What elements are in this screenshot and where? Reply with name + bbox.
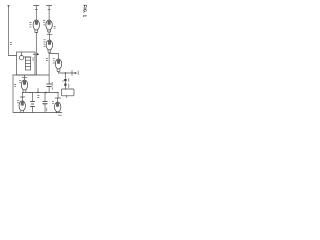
capacitor C1 lower lead (48, 86, 50, 92)
wire V6 grid lead (57, 98, 59, 102)
bus lower horizontal (22, 92, 58, 94)
tube V4 envelope (55, 59, 61, 69)
label 18 under V6 (59, 114, 62, 116)
tube V6 legs (56, 112, 59, 113)
wire V1 grid lead (35, 6, 37, 21)
wire arrow out of box top right (33, 53, 38, 55)
label 44 ticks left of V4 (53, 59, 55, 63)
bus mid horizontal (13, 74, 49, 76)
antenna terminal (7, 5, 9, 7)
label 28 beside R1 (68, 79, 70, 88)
tube V1 inner electrode (35, 21, 37, 25)
wire V4 output line right (59, 71, 76, 73)
label 52 (77, 71, 79, 75)
label 42 ticks left of V2 (43, 21, 45, 25)
label 50 ticks (14, 85, 15, 87)
wire left drop from bus (13, 75, 16, 113)
label 32 ticks left of V6 (52, 101, 54, 103)
label 43 tick right of V2 (54, 26, 55, 28)
label 22 ticks left of V5 (19, 81, 21, 83)
label tick left of R1 (62, 80, 63, 82)
wire V1 cathode long drop (35, 33, 37, 76)
label 41 ticks left of V1 (30, 23, 32, 27)
capacitor C1 plates (47, 84, 52, 86)
bus bottom horizontal (16, 112, 62, 114)
label 51 above bus (38, 96, 39, 98)
label 49 ticks in box (33, 58, 34, 60)
node junction dot (29, 92, 30, 93)
label 24 beside C2 (46, 108, 48, 111)
wire bus corner to V6 (57, 93, 59, 99)
label 26 beside C1 (51, 83, 53, 90)
tube V3 top cap bar (47, 33, 52, 35)
meter circle inside box (19, 56, 23, 60)
node stub with dot (37, 89, 39, 93)
capacitor C2 upper lead (44, 93, 46, 101)
label 47 tick (46, 59, 47, 61)
wire V2 grid lead (48, 6, 50, 21)
tube V6 inner electrode (57, 103, 59, 107)
tube V7 envelope (19, 101, 25, 111)
tube V2 legs (48, 30, 51, 32)
tube V5 inner electrode (24, 81, 26, 85)
svg-text:FIG. 1: FIG. 1 (82, 5, 87, 18)
label 43 ticks left of V3 (44, 40, 46, 47)
wire V3 cathode drop to bus (48, 52, 50, 75)
node inner junction (24, 56, 31, 58)
tube V4 legs (57, 69, 60, 72)
wire corner into box (9, 55, 17, 57)
wire antenna lead down left side (8, 7, 10, 56)
wire V7 grid lead from bus (22, 93, 24, 98)
capacitor C2 lower lead (44, 104, 46, 113)
tuner box outline (17, 52, 36, 75)
tube V2 envelope (46, 20, 52, 30)
wire circle top lead (21, 52, 23, 56)
tube V1 envelope (33, 20, 39, 30)
tube V1 legs (35, 30, 38, 33)
ground tick under box (66, 96, 68, 98)
capacitor C2 plates (43, 102, 47, 104)
label 46 beside antenna lead (10, 43, 11, 45)
battery B1 lower lead (32, 107, 34, 113)
capacitor C1 drop (48, 75, 50, 83)
tube V3 envelope (46, 40, 52, 50)
battery B1 plates (31, 102, 35, 107)
tube V5 envelope (21, 80, 27, 90)
battery B1 upper lead (32, 93, 34, 101)
wire V3 grid lead (48, 34, 50, 40)
node junction dot (65, 72, 66, 73)
wire output arrowhead (75, 72, 77, 74)
tube V6 top cap bar (55, 97, 60, 99)
tube V2 top cap bar (46, 5, 51, 7)
tube V6 envelope (55, 102, 61, 112)
tube V7 legs (21, 111, 24, 113)
tube V3 inner electrode (48, 41, 50, 45)
resistor R1 body (64, 80, 66, 86)
tube V4 inner electrode (58, 60, 60, 64)
tube V5 grid lead from bus (24, 75, 26, 80)
tube V5 legs (23, 90, 26, 93)
output box (62, 89, 75, 96)
tube V2 inner electrode (48, 21, 50, 25)
tube V7 inner electrode (21, 102, 23, 106)
wire branch to V4 (49, 54, 58, 60)
label 31 ticks left of V7 (17, 101, 19, 103)
wire V2 to V3 (48, 32, 50, 34)
tube V3 legs (48, 50, 51, 53)
transformer winding ladder (26, 57, 31, 70)
tube V1 top cap bar (34, 5, 39, 7)
resistor R1 drop (64, 73, 66, 89)
node B+ tick (71, 71, 73, 76)
